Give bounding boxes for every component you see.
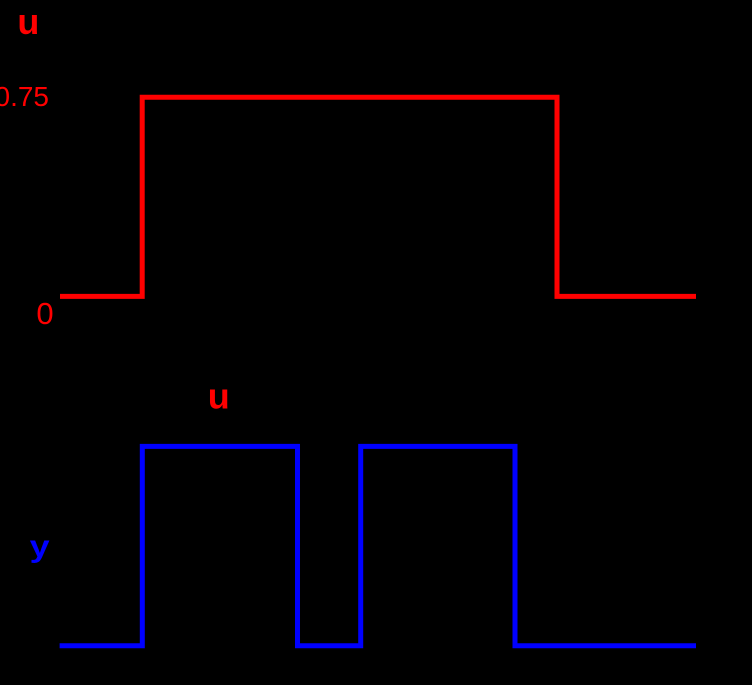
red step waveform u: [60, 97, 696, 296]
svg-text:0: 0: [36, 296, 53, 331]
svg-text:y: y: [30, 529, 51, 564]
svg-text:u: u: [208, 376, 230, 417]
svg-text:u: u: [17, 1, 39, 42]
svg-text:0.75: 0.75: [0, 81, 49, 112]
blue pulse waveform y: [60, 446, 696, 645]
